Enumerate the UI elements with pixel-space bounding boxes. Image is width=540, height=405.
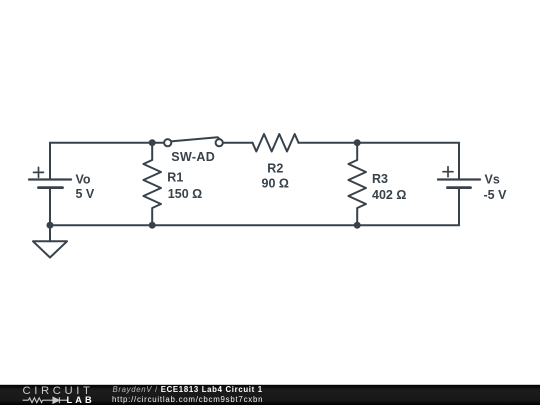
switch SW1 lever xyxy=(171,137,220,141)
wire ground stub xyxy=(49,225,51,241)
wire top-left segment xyxy=(50,142,163,144)
wire left rail upper xyxy=(49,143,51,180)
svg-text:90 Ω: 90 Ω xyxy=(262,177,289,191)
svg-text:BraydenV / ECE1813 Lab4 Circui: BraydenV / ECE1813 Lab4 Circuit 1 xyxy=(113,385,263,394)
wire right rail lower xyxy=(458,188,460,226)
svg-text:R3: R3 xyxy=(372,172,388,186)
wire right rail upper xyxy=(458,143,460,180)
svg-text:R2: R2 xyxy=(267,162,283,176)
svg-text:Vo: Vo xyxy=(76,172,91,186)
logo schematic doodle xyxy=(23,397,68,403)
V2 plus sign xyxy=(443,167,453,177)
V1 plus sign xyxy=(34,167,44,177)
resistor R1 xyxy=(143,143,161,226)
svg-text:LAB: LAB xyxy=(67,395,95,405)
svg-text:-5 V: -5 V xyxy=(484,188,508,202)
node junction top R1 xyxy=(149,139,156,146)
switch SW1 right contact xyxy=(216,139,223,146)
ground xyxy=(33,241,67,257)
node junction bottom R1 xyxy=(149,222,156,229)
svg-text:http://circuitlab.com/cbcm9sbt: http://circuitlab.com/cbcm9sbt7cxbn xyxy=(112,395,263,404)
node junction bottom left xyxy=(47,222,54,229)
svg-text:R1: R1 xyxy=(167,171,183,185)
voltage source V1 Vo plates xyxy=(29,180,71,188)
svg-text:402 Ω: 402 Ω xyxy=(372,188,406,202)
switch SW1 left contact xyxy=(164,139,171,146)
wire left rail lower xyxy=(49,188,51,226)
wire between switch and R2 xyxy=(224,142,253,144)
voltage source V2 Vs plates xyxy=(438,180,480,188)
svg-text:150 Ω: 150 Ω xyxy=(168,187,202,201)
node junction top R3 xyxy=(354,139,361,146)
svg-text:5 V: 5 V xyxy=(76,187,95,201)
resistor R2 xyxy=(253,134,299,152)
svg-text:Vs: Vs xyxy=(485,173,500,187)
resistor R3 xyxy=(348,143,366,226)
wire bottom rail xyxy=(50,224,459,226)
wire R2 to right rail xyxy=(299,142,460,144)
svg-text:SW-AD: SW-AD xyxy=(171,150,215,164)
node junction bottom R3 xyxy=(354,222,361,229)
